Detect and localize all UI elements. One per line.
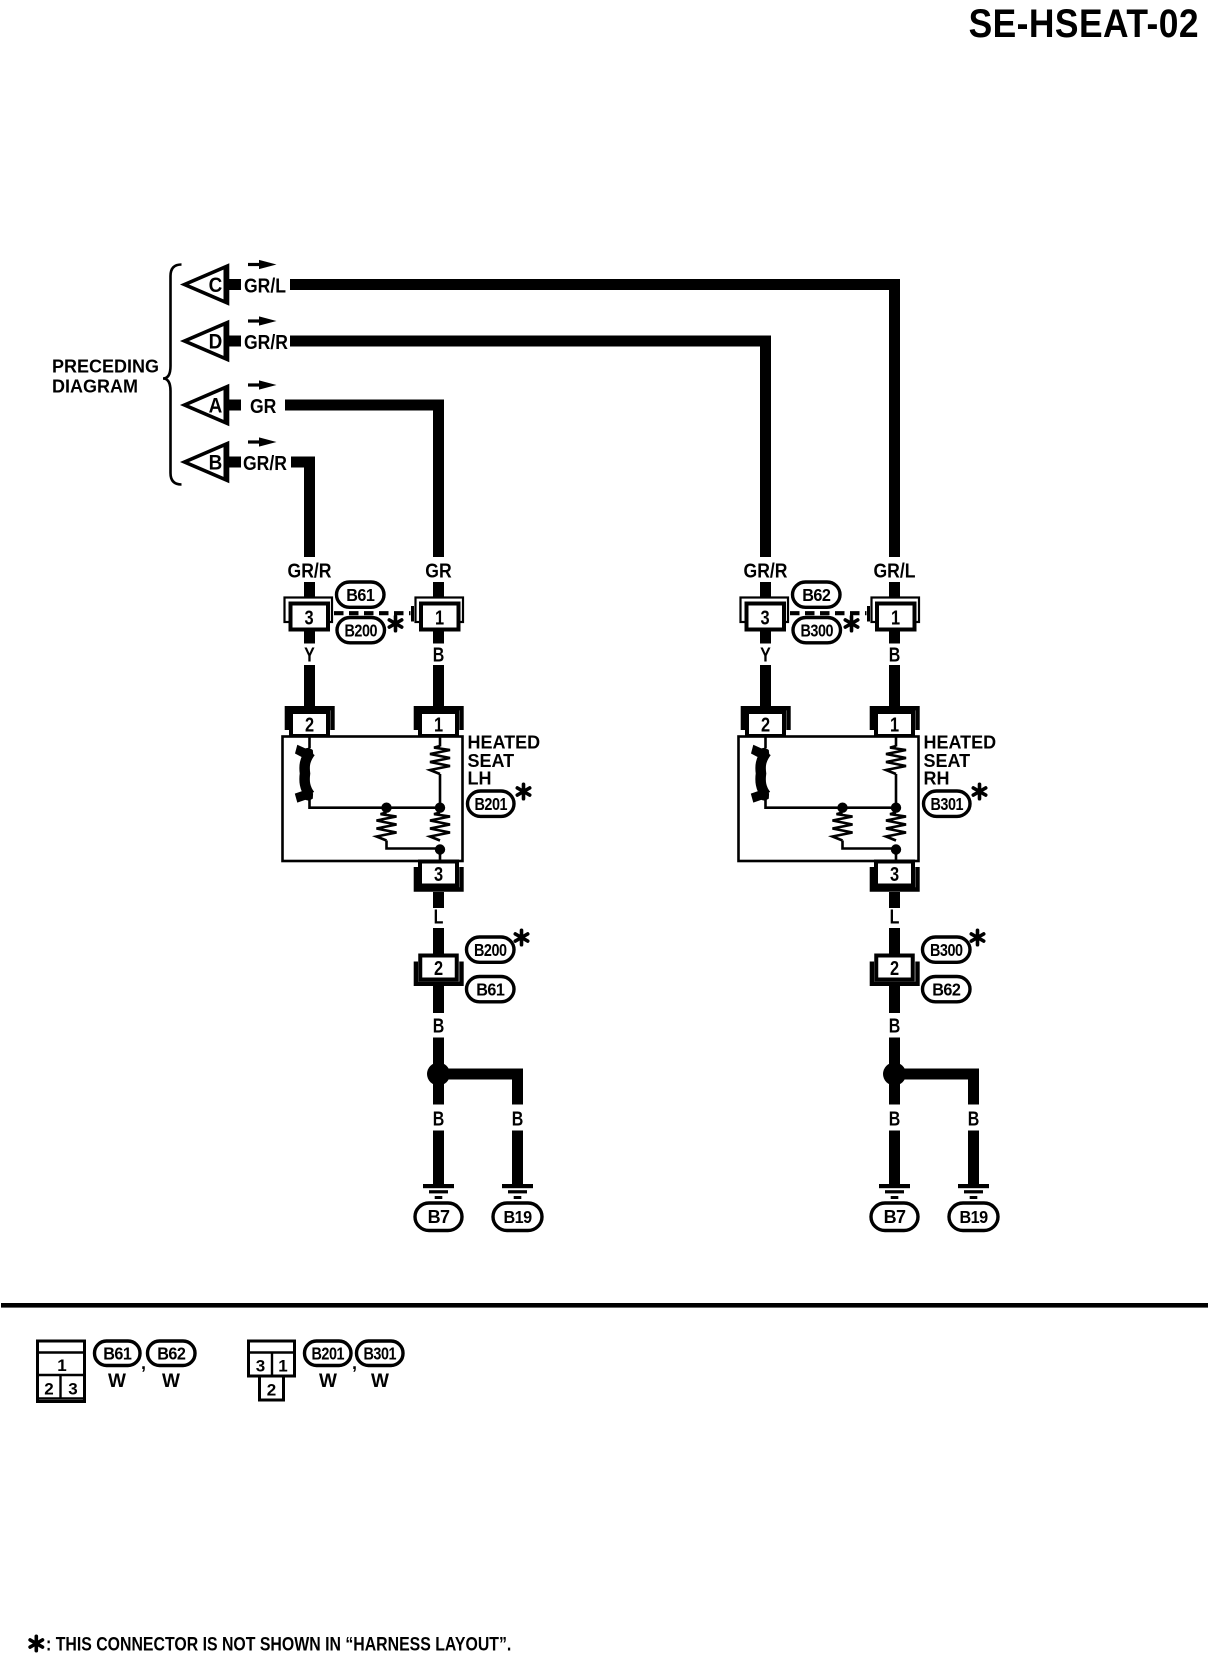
svg-text:1: 1: [57, 1356, 66, 1375]
svg-text:B: B: [889, 644, 901, 666]
connector label oval B61: [337, 582, 385, 607]
component label oval B201 with asterisk: [468, 784, 530, 816]
wire to splice: [889, 1038, 900, 1065]
seat connector pin 3: [416, 862, 462, 890]
svg-text:B61: B61: [103, 1344, 132, 1364]
svg-text:B: B: [889, 1015, 901, 1037]
svg-text:B: B: [209, 452, 223, 475]
lead from pin 1 to heater element: [895, 737, 898, 747]
wire A (GR) to left circuit col2: [285, 405, 439, 557]
splice node: [427, 1063, 450, 1086]
sensor resistor (lower left): [377, 813, 397, 841]
svg-text:1: 1: [891, 606, 900, 629]
wire B (GR/R) to left circuit col1: [291, 462, 310, 557]
wire D (GR/R) to right circuit col1: [290, 341, 766, 557]
wire L to body connector: [433, 928, 444, 958]
arrow above wire D: [248, 316, 277, 325]
svg-text:GR/L: GR/L: [244, 274, 286, 296]
wire below pin 3: [889, 892, 900, 908]
junction node right bus: [435, 803, 445, 813]
legend oval B301: [357, 1341, 404, 1392]
connector label oval B62: [793, 582, 841, 607]
svg-text:B: B: [889, 1108, 901, 1130]
svg-text:L: L: [890, 906, 900, 928]
seat connector pin 3: [872, 862, 918, 890]
junction node mid bus: [837, 803, 847, 813]
wire L to body connector: [889, 928, 900, 958]
svg-text:GR/R: GR/R: [244, 331, 288, 353]
wire B below connector col2: [433, 630, 444, 644]
lead to pin 3: [439, 850, 442, 863]
junction node right bus: [891, 803, 901, 813]
ground symbol right: [502, 1184, 533, 1199]
svg-text:Y: Y: [304, 644, 315, 666]
connector label oval B200 with asterisk: [337, 616, 402, 643]
svg-text:B300: B300: [930, 940, 963, 960]
wire below splice: [889, 1084, 900, 1105]
svg-text:3: 3: [68, 1380, 77, 1399]
wire col1 to seat pin 2: [760, 665, 771, 712]
lead resistor to bus: [439, 774, 442, 808]
svg-text:GR: GR: [250, 395, 277, 417]
sensor resistor (lower left): [833, 813, 853, 841]
arrow above wire A: [248, 380, 277, 389]
legend connector face B201/B301 (3 1 / 2): [249, 1341, 295, 1400]
connector label oval B300 with asterisk: [793, 616, 858, 643]
svg-text:B200: B200: [474, 940, 507, 960]
svg-text:B: B: [433, 1108, 445, 1130]
heater resistor (lower right): [430, 813, 450, 841]
arrow above wire C: [248, 260, 277, 269]
heated seat RH box: [739, 737, 919, 862]
junction node bottom: [891, 844, 901, 854]
seat connector pin 2: [743, 708, 789, 736]
svg-text:D: D: [209, 331, 223, 354]
wire col2 into connector: [889, 582, 900, 600]
arrow above wire B: [248, 437, 277, 446]
component label oval B301 with asterisk: [924, 784, 986, 816]
body connector pin 2 (B200/B61): [416, 956, 462, 984]
svg-text:Y: Y: [760, 644, 771, 666]
svg-text:GR/L: GR/L: [873, 559, 915, 581]
wire left leg to ground: [889, 1131, 900, 1185]
svg-text:B201: B201: [312, 1344, 345, 1364]
legend oval B61: [95, 1341, 141, 1392]
svg-text:L: L: [434, 906, 444, 928]
svg-text:B201: B201: [475, 795, 508, 815]
connector B61 pin 3 (col 1): [285, 598, 333, 630]
svg-text:B: B: [512, 1108, 524, 1130]
lead thermostat to bus: [310, 796, 441, 808]
wire Y below connector col1: [760, 630, 771, 644]
svg-text:HEATED: HEATED: [468, 733, 541, 753]
lead resistor to bus: [895, 774, 898, 808]
svg-text:DIAGRAM: DIAGRAM: [52, 377, 138, 397]
wire below body connector: [889, 986, 900, 1013]
svg-text:B301: B301: [931, 795, 964, 815]
svg-text:1: 1: [435, 606, 444, 629]
wire to splice: [433, 1038, 444, 1065]
svg-text:RH: RH: [924, 769, 950, 789]
svg-text:2: 2: [434, 956, 443, 979]
svg-text:PRECEDING: PRECEDING: [52, 357, 159, 377]
svg-text:3: 3: [760, 606, 769, 629]
svg-text:B301: B301: [364, 1344, 397, 1364]
connector label oval B61 lower: [467, 977, 515, 1002]
svg-text:SE-HSEAT-02: SE-HSEAT-02: [969, 2, 1199, 46]
connector B62 pin 3 (col 1): [741, 598, 789, 630]
svg-text:1: 1: [890, 713, 899, 736]
connector triangle D (preceding diagram): [185, 323, 242, 360]
lead from pin 2 to thermostat: [308, 737, 311, 749]
svg-text:GR/R: GR/R: [744, 559, 788, 581]
connector label oval B62 lower: [923, 977, 971, 1002]
wire below body connector: [433, 986, 444, 1013]
junction node bottom: [435, 844, 445, 854]
svg-text:3: 3: [256, 1357, 265, 1376]
lead thermostat to bus: [766, 796, 897, 808]
svg-text:LH: LH: [468, 769, 492, 789]
svg-text:B19: B19: [959, 1207, 987, 1227]
svg-text:: THIS CONNECTOR IS NOT SHOWN: : THIS CONNECTOR IS NOT SHOWN IN “HARNES…: [46, 1633, 511, 1655]
wire below splice: [433, 1084, 444, 1105]
separator rule: [1, 1303, 1208, 1308]
wire col2 to seat pin 1: [433, 665, 444, 712]
svg-text:W: W: [371, 1371, 389, 1392]
ground label oval B7: [871, 1203, 918, 1231]
svg-text:A: A: [209, 395, 223, 418]
connector triangle B (preceding diagram): [185, 444, 242, 481]
wire B below connector col2: [889, 630, 900, 644]
svg-text:B62: B62: [802, 585, 830, 605]
svg-text:1: 1: [434, 713, 443, 736]
seat connector pin 1: [872, 708, 918, 736]
svg-text:3: 3: [434, 862, 443, 885]
svg-text:B: B: [433, 1015, 445, 1037]
svg-text:GR/R: GR/R: [288, 559, 332, 581]
ground symbol left (894): [879, 1184, 910, 1199]
dashed mating line between B61 and B200: [334, 611, 411, 615]
ground label oval B19: [949, 1203, 998, 1231]
svg-text:C: C: [209, 274, 223, 297]
wire left leg to ground: [433, 1131, 444, 1185]
heater resistor (lower right): [886, 813, 906, 841]
svg-text:B19: B19: [503, 1207, 531, 1227]
lead from pin 2 to thermostat: [764, 737, 767, 749]
svg-text:2: 2: [267, 1381, 276, 1400]
splice node: [883, 1063, 906, 1086]
branch wire to right ground: [901, 1074, 974, 1105]
svg-text:B61: B61: [346, 585, 375, 605]
svg-text:B300: B300: [801, 621, 834, 641]
lead lower-left resistor to bottom bus: [387, 841, 441, 849]
svg-text:3: 3: [304, 606, 313, 629]
svg-text:W: W: [319, 1371, 337, 1392]
svg-text:B62: B62: [932, 980, 960, 1000]
svg-text:B7: B7: [428, 1207, 450, 1227]
thermostat (heated seat RH): [751, 745, 770, 803]
legend oval B62: [148, 1341, 196, 1392]
heater element resistor (top right): [886, 746, 906, 774]
footnote asterisk: [30, 1636, 42, 1650]
svg-text:3: 3: [890, 862, 899, 885]
ground symbol right: [958, 1184, 989, 1199]
seat connector pin 2: [287, 708, 333, 736]
svg-text:HEATED: HEATED: [924, 733, 997, 753]
right leg wire to ground: [512, 1131, 523, 1185]
svg-text:B: B: [433, 644, 445, 666]
dashed mating line between B62 and B300: [790, 611, 867, 615]
svg-text:B: B: [968, 1108, 980, 1130]
ground label oval B7: [415, 1203, 462, 1231]
ground symbol left (438): [423, 1184, 454, 1199]
svg-text:B7: B7: [884, 1207, 906, 1227]
connector label oval B200 lower with asterisk: [467, 930, 528, 962]
body connector pin 2 (B300/B62): [872, 956, 918, 984]
legend connector face B61/B62 (1 / 2 3): [38, 1341, 85, 1402]
svg-text:,: ,: [141, 1353, 145, 1373]
svg-text:2: 2: [44, 1380, 53, 1399]
connector label oval B300 lower with asterisk: [923, 930, 984, 962]
svg-text:B61: B61: [476, 980, 505, 1000]
connector triangle C (preceding diagram): [185, 266, 242, 303]
svg-text:GR/R: GR/R: [243, 452, 287, 474]
svg-text:GR: GR: [425, 559, 452, 581]
junction node mid bus: [381, 803, 391, 813]
wire col2 into connector: [433, 582, 444, 600]
svg-text:B200: B200: [345, 621, 378, 641]
legend oval B201: [305, 1341, 352, 1392]
svg-text:2: 2: [761, 713, 770, 736]
heated seat LH box: [283, 737, 463, 862]
ground label oval B19: [493, 1203, 542, 1231]
connector B200 pin 1 (col 2): [413, 598, 464, 630]
wire Y below connector col1: [304, 630, 315, 644]
svg-text:W: W: [162, 1371, 180, 1392]
svg-text:2: 2: [305, 713, 314, 736]
connector B300 pin 1 (col 2): [869, 598, 920, 630]
brace for preceding diagram: [163, 265, 182, 485]
svg-text:2: 2: [890, 956, 899, 979]
svg-text:W: W: [108, 1371, 126, 1392]
thermostat (heated seat LH): [295, 745, 314, 803]
seat connector pin 1: [416, 708, 462, 736]
branch wire to right ground: [445, 1074, 518, 1105]
wire col1 to seat pin 2: [304, 665, 315, 712]
wire col1 into connector: [760, 582, 771, 600]
heater element resistor (top right): [430, 746, 450, 774]
wire C (GR/L) to right circuit col2: [290, 285, 895, 558]
connector triangle A (preceding diagram): [185, 387, 242, 424]
svg-text:B62: B62: [157, 1344, 185, 1364]
svg-text:1: 1: [278, 1357, 287, 1376]
lead lower-left resistor to bottom bus: [843, 841, 897, 849]
wire col1 into connector: [304, 582, 315, 600]
lead from pin 1 to heater element: [439, 737, 442, 747]
wire col2 to seat pin 1: [889, 665, 900, 712]
right leg wire to ground: [968, 1131, 979, 1185]
lead to pin 3: [895, 850, 898, 863]
wire below pin 3: [433, 892, 444, 908]
